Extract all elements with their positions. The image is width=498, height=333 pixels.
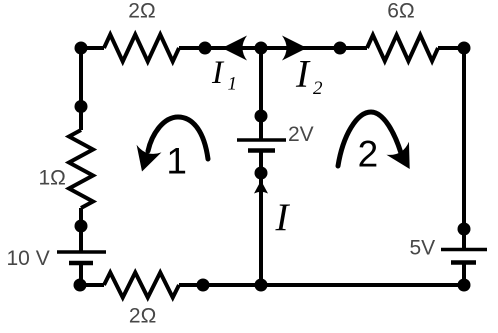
wire top middle segment — [179, 46, 367, 50]
wire middle lower vertical — [259, 151, 263, 286]
wire left below battery — [79, 263, 83, 285]
battery V2 2V plates — [237, 140, 286, 151]
svg-text:1: 1 — [166, 141, 187, 182]
node above battery V1 — [75, 220, 88, 233]
node bottom-right corner — [458, 279, 471, 292]
node above battery V3 — [458, 223, 471, 236]
svg-text:I2: I2 — [295, 52, 323, 99]
current arrow I1 head — [222, 36, 247, 61]
svg-text:I1: I1 — [211, 55, 237, 95]
wire left between resistor and battery — [79, 208, 83, 251]
svg-text:10 V: 10 V — [7, 247, 50, 270]
node top-left corner — [75, 42, 88, 55]
battery V3 5V plates — [441, 250, 487, 263]
node bottom-left corner — [74, 279, 87, 292]
resistor 1ohm left — [69, 130, 93, 208]
node above battery V2 — [255, 110, 268, 123]
loop 1 arrowhead — [130, 145, 162, 176]
loop 1 arc — [148, 117, 208, 159]
node top B — [334, 42, 347, 55]
svg-text:2Ω: 2Ω — [129, 305, 156, 328]
wire top-right segment — [438, 46, 464, 50]
wire right below battery — [462, 263, 466, 286]
svg-text:2: 2 — [358, 133, 379, 174]
node below battery V2 — [255, 167, 268, 180]
node bottom after resistor — [197, 279, 210, 292]
node top-right corner — [458, 42, 471, 55]
node top A — [199, 42, 212, 55]
wire top-left segment — [81, 46, 104, 50]
wire bottom segment — [179, 283, 464, 287]
node bottom middle — [255, 279, 268, 292]
wire left upper vertical — [79, 48, 83, 130]
resistor 2ohm bottom — [104, 273, 179, 298]
svg-text:I: I — [275, 196, 291, 239]
resistor 6ohm top-right — [367, 35, 438, 61]
svg-text:5V: 5V — [410, 237, 436, 260]
svg-text:2V: 2V — [288, 123, 314, 146]
loop 2 arc — [338, 112, 401, 166]
wire middle upper vertical — [259, 48, 263, 139]
svg-text:1Ω: 1Ω — [39, 167, 66, 190]
current arrow I2 head — [282, 36, 307, 61]
svg-text:6Ω: 6Ω — [387, 0, 414, 23]
svg-text:2Ω: 2Ω — [128, 0, 155, 23]
wire bottom-left segment — [79, 283, 104, 287]
wire right upper vertical — [462, 48, 466, 251]
node top middle — [255, 42, 268, 55]
resistor 2ohm top-left — [104, 35, 179, 62]
loop 2 arrowhead — [386, 142, 421, 176]
node left upper — [75, 100, 88, 113]
current arrow I head — [254, 181, 268, 194]
battery V1 10V plates — [57, 252, 106, 263]
